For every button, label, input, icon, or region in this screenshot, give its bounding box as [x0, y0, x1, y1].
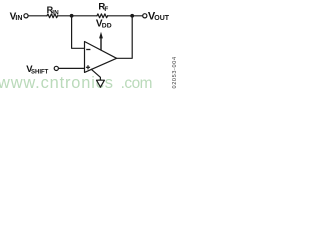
svg-text:F: F	[104, 6, 108, 13]
figure number 02053-004 (rotated)	[172, 56, 178, 88]
svg-text:02053-004: 02053-004	[172, 56, 178, 88]
wire output to node B	[117, 16, 133, 59]
svg-text:IN: IN	[52, 10, 59, 17]
op-amp plus sign	[86, 65, 90, 69]
VDD supply arrow stem	[100, 38, 102, 50]
VDD supply arrowhead	[99, 32, 103, 39]
ground symbol	[97, 80, 105, 87]
watermark www.cntronics.com	[0, 74, 152, 92]
svg-text:SHIFT: SHIFT	[31, 70, 49, 76]
node B junction dot	[130, 14, 134, 18]
wire VIN to RIN	[28, 15, 47, 17]
terminal VIN	[24, 14, 28, 18]
svg-text:DD: DD	[102, 23, 112, 30]
op-amp U1	[85, 42, 117, 73]
wire node A down to inverting input	[72, 16, 85, 49]
svg-text:OUT: OUT	[154, 15, 170, 22]
svg-text:IN: IN	[15, 15, 22, 22]
wire RF to node B and on to VOUT terminal	[108, 15, 143, 17]
svg-text:.com: .com	[121, 75, 152, 92]
resistor RF	[97, 14, 108, 18]
terminal VOUT	[143, 14, 147, 18]
terminal VSHIFT	[54, 66, 58, 70]
wire VSHIFT to non-inverting input	[59, 67, 85, 69]
wire RIN to node A and on to RF	[58, 15, 97, 17]
resistor RIN	[47, 14, 58, 18]
svg-text:www.cntronics: www.cntronics	[0, 74, 113, 92]
op-amp minus sign	[86, 49, 90, 51]
ground stem	[91, 69, 100, 80]
node A junction dot	[70, 14, 74, 18]
